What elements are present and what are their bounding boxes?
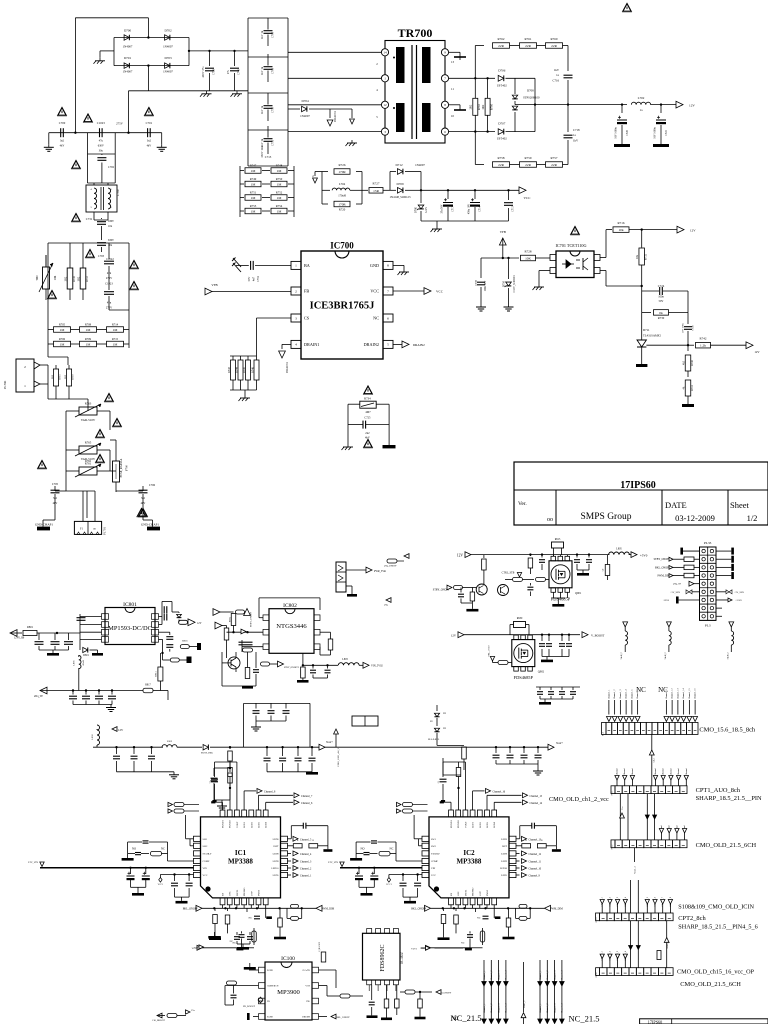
svg-text:LED5: LED5 — [501, 874, 508, 877]
svg-text:74uH_2: 74uH_2 — [665, 652, 667, 659]
svg-text:R714: R714 — [112, 323, 119, 327]
svg-text:R753: R753 — [250, 204, 257, 208]
svg-text:1.2k: 1.2k — [700, 344, 706, 348]
svg-text:NC: NC — [230, 940, 234, 943]
svg-text:C724: C724 — [658, 284, 665, 288]
svg-text:NC: NC — [249, 917, 253, 920]
svg-text:LED9: LED9 — [501, 860, 508, 863]
svg-text:R748: R748 — [276, 164, 283, 168]
svg-text:DATE: DATE — [665, 500, 687, 510]
svg-text:Vout1_2: Vout1_2 — [635, 866, 637, 873]
svg-text:EN: EN — [450, 893, 453, 896]
svg-text:C722: C722 — [665, 129, 668, 135]
svg-text:1N4007: 1N4007 — [163, 45, 173, 49]
svg-text:CPT2_8ch: CPT2_8ch — [678, 915, 706, 922]
svg-text:1: 1 — [295, 264, 297, 268]
svg-text:6: 6 — [387, 316, 389, 320]
svg-text:LED9: LED9 — [273, 860, 280, 863]
svg-text:FDS4685P: FDS4685P — [514, 675, 534, 680]
svg-text:DRAIN1: DRAIN1 — [304, 342, 319, 347]
svg-text:Channel_4: Channel_4 — [562, 1003, 564, 1013]
svg-text:C740: C740 — [238, 68, 241, 75]
svg-text:1M: 1M — [277, 183, 282, 187]
svg-text:275V: 275V — [106, 277, 112, 280]
svg-text:OSC: OSC — [457, 891, 460, 896]
svg-text:Vcc: Vcc — [622, 806, 624, 810]
svg-text:Channel_4: Channel_4 — [300, 853, 312, 856]
svg-text:uNq_ONOFF: uNq_ONOFF — [384, 565, 397, 568]
svg-text:Channel_13: Channel_13 — [677, 688, 679, 699]
svg-text:2n2: 2n2 — [365, 432, 370, 435]
svg-text:14: 14 — [383, 51, 387, 55]
svg-text:CLA/TR: CLA/TR — [302, 969, 310, 972]
svg-text:A12V: A12V — [425, 207, 428, 213]
svg-text:LED4: LED4 — [265, 821, 268, 828]
svg-text:L902: L902 — [167, 740, 173, 743]
svg-text:450u 16V: 450u 16V — [468, 204, 471, 214]
svg-text:SW1: SW1 — [431, 838, 437, 841]
svg-text:C709: C709 — [272, 67, 275, 74]
svg-text:Channel_1: Channel_1 — [484, 971, 486, 980]
svg-text:C9: C9 — [603, 569, 605, 572]
svg-text:STPS20H100: STPS20H100 — [523, 96, 540, 100]
svg-text:100n 50V: 100n 50V — [484, 281, 487, 292]
svg-text:10: 10 — [451, 114, 455, 118]
svg-text:Channel_1: Channel_1 — [608, 690, 610, 699]
svg-text:ISET: ISET — [273, 845, 279, 848]
svg-text:Channel_6: Channel_6 — [637, 689, 639, 699]
svg-text:170R: 170R — [338, 170, 346, 174]
svg-text:ICE3BR1765J: ICE3BR1765J — [310, 301, 375, 312]
svg-text:R747: R747 — [250, 164, 257, 168]
svg-text:R728: R728 — [525, 250, 532, 254]
svg-text:PL700: PL700 — [3, 380, 7, 389]
svg-text:Channel: Channel — [663, 768, 665, 776]
svg-text:22R: 22R — [498, 44, 504, 48]
svg-text:Channel_4: Channel_4 — [506, 970, 508, 980]
svg-text:22R: 22R — [498, 163, 504, 167]
svg-text:STAHLP: STAHLP — [203, 853, 213, 856]
svg-text:LED1: LED1 — [243, 821, 246, 828]
svg-text:1kV: 1kV — [573, 139, 579, 143]
svg-text:Channel_14: Channel_14 — [683, 688, 685, 699]
svg-text:250V 12n: 250V 12n — [261, 146, 264, 158]
svg-text:MP3388: MP3388 — [457, 858, 482, 866]
svg-text:22R: 22R — [525, 163, 531, 167]
svg-text:IC1: IC1 — [235, 849, 247, 857]
svg-text:D801: D801 — [83, 654, 89, 657]
svg-text:DRAIN1: DRAIN1 — [333, 111, 337, 122]
svg-text:R754: R754 — [276, 204, 283, 208]
svg-text:LED5: LED5 — [273, 874, 280, 877]
svg-text:IC2: IC2 — [463, 849, 475, 857]
svg-text:+12V0: +12V0 — [662, 599, 669, 602]
svg-text:D708: D708 — [527, 89, 534, 93]
svg-text:D711: D711 — [643, 328, 650, 332]
svg-text:Channel_1: Channel_1 — [540, 1004, 542, 1013]
svg-text:NC: NC — [233, 942, 237, 945]
svg-text:R745: R745 — [243, 366, 246, 372]
svg-text:C712: C712 — [257, 275, 260, 282]
svg-text:TL431SAMF2: TL431SAMF2 — [643, 334, 661, 338]
svg-text:4M7: 4M7 — [365, 411, 371, 414]
svg-text:R765: R765 — [85, 441, 92, 445]
svg-text:Channel_1: Channel_1 — [540, 971, 542, 980]
svg-text:1M: 1M — [277, 169, 282, 173]
svg-text:Vout1_2: Vout1_2 — [524, 1001, 526, 1008]
svg-text:PWM: PWM — [258, 889, 261, 896]
svg-text:LED4: LED4 — [493, 821, 496, 828]
svg-text:275V: 275V — [116, 122, 124, 126]
svg-text:1M: 1M — [251, 183, 256, 187]
svg-text:NTGS3446: NTGS3446 — [276, 623, 307, 630]
svg-text:VIN_5V02: VIN_5V02 — [371, 665, 383, 668]
svg-text:VOUT: VOUT — [236, 821, 239, 828]
svg-text:COMP/BCN: COMP/BCN — [267, 986, 279, 988]
svg-text:PL2: PL2 — [603, 732, 605, 736]
svg-text:10k: 10k — [618, 228, 623, 232]
svg-text:1kV 1n: 1kV 1n — [261, 30, 264, 39]
svg-text:1M: 1M — [277, 210, 282, 214]
svg-text:LED10: LED10 — [500, 867, 508, 870]
svg-text:3R2: 3R2 — [65, 276, 68, 281]
svg-text:OVP: OVP — [479, 891, 482, 896]
svg-text:FUSE_RADIAL: FUSE_RADIAL — [120, 458, 123, 477]
svg-text:47n: 47n — [107, 302, 112, 305]
svg-text:1N4007: 1N4007 — [300, 114, 310, 118]
svg-text:CS: CS — [304, 315, 310, 320]
svg-text:VCN: VCN — [305, 986, 310, 988]
svg-text:VIN: VIN — [203, 867, 208, 870]
svg-text:4n7: 4n7 — [253, 276, 256, 281]
svg-text:D707: D707 — [498, 122, 505, 126]
svg-text:PWM_DIM: PWM_DIM — [322, 908, 335, 911]
svg-text:1M: 1M — [113, 343, 118, 347]
svg-text:DRAIN1: DRAIN1 — [285, 362, 289, 373]
svg-text:PL11: PL11 — [612, 791, 614, 796]
svg-text:L801: L801 — [73, 660, 76, 666]
svg-text:D706: D706 — [498, 69, 505, 73]
svg-text:uNq_TP: uNq_TP — [673, 583, 682, 586]
svg-text:2R2: 2R2 — [482, 104, 485, 109]
svg-text:3n2: 3n2 — [60, 140, 65, 143]
svg-text:GND-CHAP1: GND-CHAP1 — [35, 523, 53, 527]
svg-text:C708: C708 — [272, 31, 275, 38]
svg-text:TR700: TR700 — [398, 26, 433, 40]
svg-text:Sheet: Sheet — [730, 500, 750, 510]
svg-text:R817: R817 — [145, 684, 151, 687]
svg-text:Channel: Channel — [686, 768, 688, 776]
svg-text:PWM_DIM: PWM_DIM — [550, 908, 563, 911]
svg-text:BKL_ONOFF: BKL_ONOFF — [411, 908, 427, 911]
svg-text:C714: C714 — [479, 205, 482, 211]
svg-text:+5V_SUS: +5V_SUS — [734, 591, 745, 594]
svg-text:Channel_2: Channel_2 — [547, 971, 549, 980]
svg-text:MP3900: MP3900 — [277, 989, 300, 996]
svg-text:CMO_OLD_ch1_2_vcc: CMO_OLD_ch1_2_vcc — [549, 796, 609, 803]
svg-text:CMO_OLD_21.5_6CH: CMO_OLD_21.5_6CH — [680, 981, 741, 988]
svg-text:Channel: Channel — [617, 768, 619, 776]
svg-text:V_BOOST: V_BOOST — [591, 634, 605, 638]
svg-text:1kV 1n: 1kV 1n — [261, 66, 264, 75]
svg-text:C703: C703 — [98, 255, 105, 258]
svg-text:17IPS60: 17IPS60 — [620, 480, 656, 491]
svg-text:Channel_11: Channel_11 — [666, 689, 668, 700]
svg-text:275V: 275V — [106, 307, 112, 310]
svg-text:CPT1_AUO_8ch: CPT1_AUO_8ch — [696, 787, 741, 794]
svg-text:2R2: 2R2 — [470, 104, 473, 109]
svg-text:3R2: 3R2 — [78, 276, 81, 281]
svg-text:1M: 1M — [113, 328, 118, 332]
svg-text:2: 2 — [295, 289, 297, 293]
svg-text:D709: D709 — [396, 182, 403, 186]
svg-text:C725: C725 — [364, 416, 371, 419]
svg-text:PL12: PL12 — [612, 845, 614, 850]
svg-text:Channel_12: Channel_12 — [529, 853, 542, 856]
svg-text:Channel_15: Channel_15 — [530, 795, 543, 798]
svg-text:50V: 50V — [248, 277, 251, 282]
svg-text:Channel_3: Channel_3 — [498, 970, 500, 980]
svg-text:1N4007: 1N4007 — [163, 70, 173, 74]
svg-text:BKL_ONOFF: BKL_ONOFF — [183, 908, 199, 911]
svg-text:630V: 630V — [108, 220, 114, 223]
svg-text:CMO_OLD_ch15_16_vcc_OP: CMO_OLD_ch15_16_vcc_OP — [677, 969, 755, 976]
svg-text:R763: R763 — [85, 402, 92, 406]
svg-text:LED3: LED3 — [258, 821, 261, 828]
svg-text:C700: C700 — [59, 121, 66, 125]
svg-text:UF5402: UF5402 — [497, 137, 507, 141]
svg-text:FDS8962C: FDS8962C — [380, 944, 386, 971]
svg-text:VOUT: VOUT — [464, 821, 467, 828]
svg-text:Channel_5: Channel_5 — [631, 689, 633, 699]
svg-text:VCC: VCC — [203, 874, 208, 877]
svg-text:R751: R751 — [250, 191, 257, 195]
svg-text:R708: R708 — [85, 323, 92, 327]
svg-text:Vout+: Vout+ — [556, 742, 563, 745]
svg-text:STAHLP: STAHLP — [431, 853, 441, 856]
svg-text:CTRL_STB: CTRL_STB — [502, 572, 515, 575]
svg-text:R760: R760 — [551, 37, 558, 41]
svg-text:12V: 12V — [754, 350, 760, 354]
svg-text:VCC: VCC — [524, 196, 532, 200]
svg-text:C10_RBOOT: C10_RBOOT — [152, 1020, 165, 1022]
svg-text:D710: D710 — [503, 280, 506, 287]
svg-text:PGND1: PGND1 — [222, 819, 225, 828]
svg-text:15R: 15R — [373, 189, 379, 193]
svg-text:1M: 1M — [86, 328, 91, 332]
svg-text:D704: D704 — [301, 99, 308, 103]
svg-text:74uH_2: 74uH_2 — [727, 652, 729, 659]
svg-text:VAR-510V: VAR-510V — [81, 418, 96, 422]
svg-text:1M: 1M — [60, 328, 65, 332]
svg-text:C718: C718 — [573, 128, 580, 132]
svg-text:Channel_3: Channel_3 — [498, 1003, 500, 1013]
svg-text:R705: R705 — [59, 323, 66, 327]
svg-text:CMO_OLD_21.5_6CH: CMO_OLD_21.5_6CH — [696, 842, 757, 849]
svg-text:Channel_10: Channel_10 — [529, 868, 542, 871]
svg-text:Channel_4: Channel_4 — [506, 1003, 508, 1013]
svg-text:C1022: C1022 — [106, 258, 114, 261]
svg-text:R710: R710 — [73, 275, 76, 281]
svg-text:R727: R727 — [373, 182, 380, 186]
svg-text:12V: 12V — [689, 104, 695, 108]
svg-text:NC: NC — [461, 942, 465, 945]
svg-text:R715: R715 — [112, 337, 119, 341]
svg-text:47uH: 47uH — [82, 660, 85, 666]
svg-text:Channel_2: Channel_2 — [614, 690, 616, 699]
svg-text:C719: C719 — [475, 279, 478, 285]
svg-text:Channel_6: Channel_6 — [301, 802, 313, 805]
svg-text:D702: D702 — [164, 29, 171, 33]
svg-text:4: 4 — [295, 343, 297, 347]
svg-text:10K: 10K — [525, 257, 531, 261]
svg-text:1N4007: 1N4007 — [123, 70, 133, 74]
svg-text:PL33: PL33 — [704, 541, 712, 545]
svg-text:R744: R744 — [235, 366, 238, 372]
svg-text:VCC: VCC — [436, 290, 444, 294]
svg-text:Channel_4: Channel_4 — [626, 689, 628, 699]
svg-text:SK/SS_DBG: SK/SS_DBG — [201, 753, 213, 755]
svg-text:1M: 1M — [251, 210, 256, 214]
svg-text:Vout+: Vout+ — [326, 741, 333, 744]
svg-text:ISET2: ISET2 — [236, 889, 239, 896]
svg-text:4kV: 4kV — [60, 145, 65, 148]
svg-text:10k: 10k — [636, 254, 639, 259]
svg-text:DRUMS: DRUMS — [302, 1017, 311, 1019]
svg-text:12: 12 — [383, 103, 387, 107]
svg-text:170R: 170R — [338, 203, 346, 207]
svg-text:SHARP_18.5_21.5__PIN: SHARP_18.5_21.5__PIN — [696, 795, 762, 802]
svg-text:L803: L803 — [342, 658, 348, 661]
svg-text:NO: NO — [132, 847, 136, 850]
svg-text:3n2: 3n2 — [147, 140, 152, 143]
svg-text:R762: R762 — [85, 460, 92, 463]
svg-text:Channel_9: Channel_9 — [529, 875, 541, 878]
svg-text:R743: R743 — [228, 366, 231, 372]
svg-text:C729: C729 — [213, 68, 216, 75]
svg-text:R763: R763 — [478, 103, 481, 110]
svg-text:Channel_13: Channel_13 — [529, 838, 542, 841]
svg-text:OSC: OSC — [229, 891, 232, 896]
svg-text:R766: R766 — [490, 103, 493, 110]
svg-text:NC: NC — [477, 917, 481, 920]
svg-text:VCC: VCC — [370, 288, 379, 293]
svg-text:C705: C705 — [52, 482, 59, 486]
svg-text:1M: 1M — [251, 196, 256, 200]
svg-text:R742: R742 — [700, 337, 707, 341]
svg-text:S108&109_CMO_OLD_ICIN: S108&109_CMO_OLD_ICIN — [678, 904, 754, 911]
svg-text:R734: R734 — [364, 397, 371, 401]
svg-text:8: 8 — [387, 264, 389, 268]
svg-text:C711: C711 — [272, 139, 275, 146]
svg-text:R720: R720 — [339, 208, 346, 212]
svg-text:22R: 22R — [525, 44, 531, 48]
svg-text:Channel_12: Channel_12 — [672, 688, 674, 699]
svg-text:Channel: Channel — [678, 768, 680, 776]
svg-text:LED2: LED2 — [479, 821, 482, 828]
svg-text:50V: 50V — [659, 300, 664, 303]
svg-text:17IPS60: 17IPS60 — [648, 1020, 662, 1024]
svg-text:Channel_2: Channel_2 — [300, 868, 312, 871]
svg-text:2: 2 — [24, 365, 26, 369]
svg-text:16V 1000u: 16V 1000u — [615, 127, 618, 139]
svg-text:IC802: IC802 — [283, 603, 297, 609]
svg-text:R712: R712 — [86, 275, 89, 281]
svg-text:1kV 1n: 1kV 1n — [261, 105, 264, 114]
svg-text:STBY_ONOFF: STBY_ONOFF — [654, 558, 671, 561]
svg-text:R741: R741 — [691, 384, 694, 390]
svg-text:Channel_2: Channel_2 — [491, 1004, 493, 1013]
svg-text:IC700: IC700 — [330, 241, 354, 251]
svg-text:R746: R746 — [251, 366, 254, 372]
svg-text:LED2: LED2 — [250, 821, 253, 828]
svg-text:12V: 12V — [457, 553, 464, 557]
svg-text:SW2: SW2 — [431, 845, 437, 848]
svg-text:1N4007: 1N4007 — [415, 163, 425, 167]
svg-text:C731: C731 — [86, 217, 93, 221]
svg-text:Ch_1: Ch_1 — [654, 758, 656, 763]
svg-text:VIN: VIN — [431, 867, 436, 870]
svg-text:V5V1: V5V1 — [411, 948, 418, 951]
svg-text:R709: R709 — [85, 337, 92, 341]
svg-text:C716: C716 — [552, 79, 559, 83]
svg-text:SRL_5V10: SRL_5V10 — [488, 645, 491, 657]
svg-text:R762: R762 — [498, 37, 505, 41]
svg-text:12V0_SB: 12V0_SB — [14, 637, 25, 640]
svg-text:L805: L805 — [616, 548, 622, 551]
svg-text:VCC1: VCC1 — [158, 884, 164, 886]
svg-text:IC701 TCET110G: IC701 TCET110G — [555, 243, 586, 248]
svg-text:30u: 30u — [99, 150, 104, 153]
svg-text:R761: R761 — [525, 37, 532, 41]
svg-text:170uH: 170uH — [338, 195, 346, 198]
svg-text:03-12-2009: 03-12-2009 — [675, 513, 715, 523]
svg-text:Channel_5: Channel_5 — [300, 838, 312, 841]
svg-text:D712: D712 — [395, 163, 402, 167]
svg-text:VCC1: VCC1 — [386, 884, 392, 886]
svg-text:Q902: Q902 — [538, 671, 545, 674]
svg-text:Q901: Q901 — [575, 592, 582, 595]
svg-text:35u 50V: 35u 50V — [441, 204, 444, 213]
svg-text:Channel_3: Channel_3 — [620, 689, 622, 699]
svg-text:Channel_14: Channel_14 — [530, 802, 543, 805]
svg-text:LED6: LED6 — [501, 838, 508, 841]
svg-text:DRAIN2: DRAIN2 — [364, 342, 379, 347]
svg-text:IC102: IC102 — [399, 952, 404, 964]
svg-text:Channel: Channel — [670, 768, 672, 776]
svg-text:SMPS Group: SMPS Group — [581, 512, 632, 522]
svg-text:R758: R758 — [498, 156, 505, 160]
svg-text:ISET: ISET — [502, 845, 508, 848]
svg-text:C1: C1 — [438, 781, 440, 784]
svg-text:Channel: Channel — [632, 768, 634, 776]
svg-text:12V: 12V — [451, 634, 457, 638]
svg-text:D703: D703 — [164, 56, 171, 60]
svg-text:FB: FB — [304, 288, 309, 293]
svg-text:RLS-E-BKL: RLS-E-BKL — [428, 739, 440, 741]
svg-text:PGND2: PGND2 — [229, 819, 232, 828]
svg-text:4kV: 4kV — [365, 437, 370, 440]
svg-text:PGND: PGND — [267, 970, 273, 972]
svg-text:LED1: LED1 — [472, 821, 475, 828]
svg-text:R716: R716 — [618, 221, 625, 225]
svg-text:IC100: IC100 — [281, 956, 295, 962]
svg-text:C701: C701 — [146, 121, 153, 125]
svg-text:C715: C715 — [512, 205, 515, 211]
svg-text:27u: 27u — [227, 69, 230, 74]
svg-text:VFB: VFB — [500, 230, 506, 234]
svg-text:400V 27u: 400V 27u — [202, 66, 205, 78]
